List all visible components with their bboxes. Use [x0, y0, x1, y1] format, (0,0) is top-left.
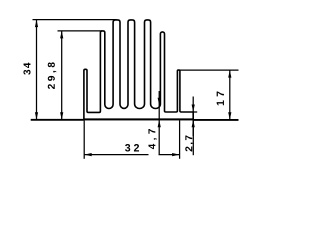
extension line down from rib right face [179, 121, 181, 159]
dimension line 2,7 upper tail [192, 97, 194, 113]
label 4,7 [148, 129, 156, 149]
dimension line 29,8 [61, 31, 63, 120]
dimension line 34 [36, 20, 38, 120]
extension line right of channel floor for dim 2,7 [193, 111, 197, 113]
label 32 [125, 144, 139, 152]
arrowhead 17 top [228, 70, 231, 78]
extension line down from base-right corner [192, 121, 194, 156]
arrowhead 29,8 top [60, 31, 63, 38]
arrowhead 32 left [84, 153, 92, 156]
profile base bottom edge [84, 118, 193, 120]
extension line top for dim 34 [33, 19, 117, 21]
extension line down from base-left corner [83, 121, 85, 159]
arrowhead 2,7 upper (points down at channel floor) [192, 105, 195, 113]
arrowhead 4,7 upper (points down at slot bottom) [158, 98, 161, 106]
label 34 [23, 63, 30, 75]
extension line bottom-right (collinear with base) [193, 119, 238, 121]
arrowhead 4,7 lower (points up at base bottom) [158, 120, 161, 128]
label 17 [217, 92, 224, 106]
extension line bottom-left (collinear with base) [31, 119, 84, 121]
extension line rib top for dim 17 [180, 69, 239, 71]
dimension line 32 right segment [159, 154, 180, 156]
arrowhead 17 bottom [228, 112, 231, 120]
dimension line 17 [229, 70, 231, 120]
label 29,8 [48, 62, 57, 89]
dimension line 2,7 lower tail [192, 120, 194, 136]
arrowhead 34 bottom [35, 112, 38, 120]
dimension line 4,7 [158, 91, 160, 155]
arrowhead 34 top [35, 20, 38, 28]
extension line for dim 29,8 [58, 30, 103, 32]
label 2,7 [185, 135, 194, 151]
heatsink profile outline [84, 20, 193, 120]
arrowhead 32 right [172, 153, 180, 156]
arrowhead 29,8 bottom [60, 112, 63, 120]
dimension line 32 left segment [84, 154, 148, 156]
arrowhead 2,7 lower (points up at base bottom) [192, 120, 195, 128]
